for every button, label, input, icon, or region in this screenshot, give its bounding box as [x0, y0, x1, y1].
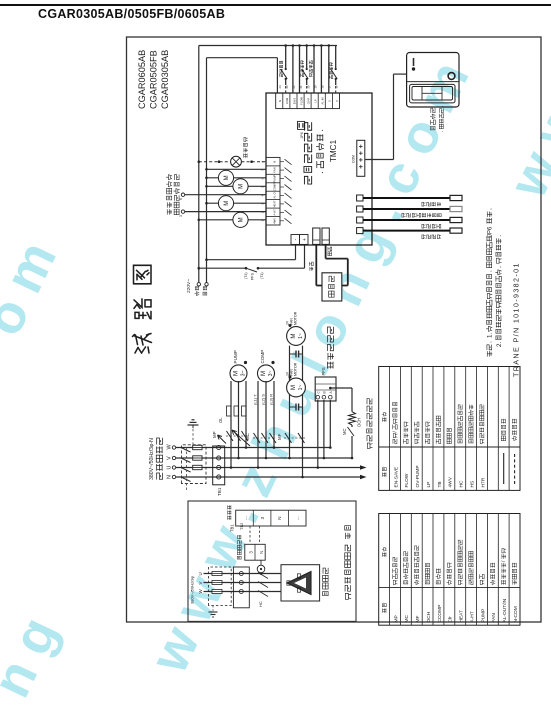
- svg-text:HC: HC: [258, 601, 263, 607]
- wire: [207, 168, 267, 170]
- wire: [476, 514, 478, 626]
- svg-text:17: 17: [328, 85, 332, 89]
- svg-text:HEAT: HEAT: [459, 610, 465, 623]
- wire: [176, 457, 352, 459]
- wire: [258, 591, 268, 597]
- wire: [176, 447, 331, 449]
- wire: [257, 381, 259, 468]
- svg-text:FLOW: FLOW: [299, 97, 303, 105]
- wire: [260, 572, 262, 575]
- svg-text:FLOW: FLOW: [404, 473, 410, 487]
- svg-text:1~: 1~: [298, 385, 304, 391]
- wire: [280, 169, 284, 171]
- wire: [351, 425, 353, 427]
- svg-text:CGAR0605AB: CGAR0605AB: [137, 50, 147, 109]
- output wire w7 + coil: [205, 176, 208, 179]
- wire: [302, 69, 309, 79]
- wire: [212, 591, 222, 593]
- wire: [258, 573, 268, 579]
- svg-text:3: 3: [261, 203, 265, 205]
- wire: [410, 367, 412, 491]
- main switch arrow: [218, 435, 227, 444]
- heater fuse dashed box: [209, 567, 232, 606]
- svg-text:MF: MF: [277, 433, 282, 440]
- svg-text:5: 5: [328, 100, 332, 102]
- wire: [276, 58, 278, 93]
- wire: [331, 69, 338, 79]
- wire: [363, 230, 450, 232]
- wire: [331, 93, 333, 109]
- label: [203, 292, 207, 295]
- svg-text:V: V: [167, 456, 173, 460]
- wire: [443, 367, 445, 491]
- wire: [306, 79, 308, 85]
- wire: [347, 259, 349, 286]
- wire: [304, 245, 306, 268]
- svg-text:4WV: 4WV: [273, 218, 277, 224]
- wire: [317, 93, 319, 109]
- wire: [234, 431, 241, 441]
- wire: [190, 421, 197, 423]
- label: [310, 74, 313, 77]
- wire: [204, 582, 282, 584]
- wire: [207, 259, 296, 261]
- wire: [207, 185, 267, 187]
- page title: [38, 7, 225, 21]
- output wire w2 + coil: [198, 218, 201, 221]
- svg-text:B: B: [322, 391, 326, 393]
- svg-text:OV-PUMP: OV-PUMP: [415, 465, 421, 487]
- svg-text:(L3) R: (L3) R: [269, 394, 274, 405]
- svg-text:...: ...: [243, 516, 248, 520]
- output wire w4 + coil: [205, 202, 208, 205]
- wire: [259, 526, 261, 544]
- wire: [329, 400, 331, 448]
- svg-text:PFS: PFS: [251, 272, 255, 280]
- wire: [181, 448, 191, 453]
- wire: [285, 46, 287, 70]
- wire: [394, 73, 407, 75]
- wire: [207, 177, 267, 179]
- label: [157, 473, 163, 479]
- label: [345, 594, 350, 600]
- wire: [432, 514, 434, 626]
- wire: [292, 46, 294, 94]
- wire: [306, 46, 308, 70]
- output wire w8: [205, 168, 208, 171]
- arrow to controller 2: [360, 465, 367, 469]
- svg-text:N: N: [278, 100, 282, 102]
- svg-text:3: 3: [179, 215, 183, 217]
- svg-text:MF: MF: [415, 616, 421, 623]
- heater fuse: [212, 590, 222, 594]
- wire: [280, 203, 284, 205]
- svg-text:V: V: [198, 582, 203, 585]
- wire: [295, 351, 297, 358]
- svg-text:/: /: [501, 560, 507, 562]
- wire: [258, 582, 268, 588]
- fan feed wires: [288, 457, 291, 460]
- main unit terminal strip: [236, 510, 306, 526]
- wire: [266, 190, 280, 192]
- transformer box: [322, 273, 342, 301]
- wire: [465, 367, 467, 491]
- wire: [365, 159, 394, 161]
- wire: [310, 93, 312, 109]
- pfs wires: [317, 466, 320, 469]
- label: [174, 209, 179, 215]
- svg-text:2: 2: [261, 211, 265, 213]
- wire: [296, 93, 298, 109]
- transformer plug CN-L: [313, 228, 320, 244]
- terminal block TB1: [213, 446, 225, 485]
- wire: [289, 346, 291, 458]
- svg-text:W: W: [167, 444, 173, 450]
- svg-text:M: M: [239, 184, 245, 189]
- incoming breaker dashed box: [182, 445, 207, 484]
- legend table: [379, 514, 520, 626]
- svg-text:4: 4: [261, 194, 265, 196]
- heater terminal strip TB3: [233, 567, 249, 608]
- heater fuse: [212, 581, 222, 585]
- wire: [421, 367, 423, 491]
- wire: [295, 245, 297, 260]
- label: [322, 172, 323, 173]
- wire: [212, 606, 214, 613]
- wire: [280, 186, 284, 188]
- wire: [266, 216, 280, 218]
- contactor coil: [233, 179, 248, 194]
- svg-text:MC: MC: [404, 615, 410, 623]
- wire: [193, 467, 202, 469]
- crankcase heater OCH resistor: [349, 412, 356, 425]
- label: [441, 130, 444, 133]
- wire: [232, 158, 240, 166]
- wire: [320, 46, 322, 94]
- wire: [476, 367, 478, 491]
- svg-text:OL: OL: [218, 417, 223, 423]
- wire: [330, 387, 352, 389]
- wire: [313, 239, 320, 241]
- svg-text:3~: 3~: [268, 370, 274, 376]
- wire: [193, 447, 202, 449]
- wire: [508, 367, 510, 491]
- svg-text:N: N: [277, 516, 282, 519]
- svg-text:TB1: TB1: [217, 487, 222, 496]
- wire: [204, 573, 282, 575]
- wire: [454, 514, 456, 626]
- wire: [454, 367, 456, 491]
- fuse: [193, 465, 202, 469]
- wire: [285, 168, 292, 174]
- wire: [253, 437, 276, 439]
- wire: [351, 388, 353, 412]
- svg-text:N-COM: N-COM: [513, 606, 519, 622]
- svg-text:380V~/50Hz/3φ: 380V~/50Hz/3φ: [190, 576, 195, 604]
- motor FAN1: [287, 378, 306, 397]
- svg-text:PUMP: PUMP: [273, 175, 277, 183]
- wire: [265, 381, 267, 458]
- wire: [199, 219, 266, 221]
- label: [237, 556, 241, 559]
- wire: [359, 152, 363, 154]
- wire: [508, 514, 510, 626]
- wire: [232, 158, 240, 166]
- wire: [315, 383, 336, 385]
- pump feed wires: [230, 466, 233, 469]
- wire: [379, 586, 520, 588]
- label: [301, 74, 304, 77]
- label: [328, 362, 333, 368]
- wire: [266, 182, 280, 184]
- wire: [486, 367, 488, 491]
- wire live to board via PFS contact: [198, 267, 201, 270]
- input terminal cells: [276, 93, 340, 109]
- motor FAN2: [287, 327, 306, 346]
- wire: [270, 510, 272, 526]
- alarm lamp: [231, 156, 242, 167]
- wire: [249, 526, 251, 544]
- svg-text:AL-OUT/IN: AL-OUT/IN: [502, 598, 508, 622]
- wire: [204, 591, 282, 593]
- control board TMC1: [266, 93, 372, 245]
- svg-text:M: M: [224, 201, 230, 206]
- motor COMP: [258, 365, 275, 382]
- wire: [514, 453, 516, 484]
- svg-text:OV-P: OV-P: [307, 98, 311, 105]
- wire: [226, 435, 249, 437]
- wire: [335, 79, 337, 85]
- wire: [421, 87, 423, 101]
- wire: [198, 46, 200, 283]
- svg-text:6: 6: [261, 177, 265, 179]
- wire: [285, 218, 292, 224]
- field wire 远传水泵相序联锁: [357, 206, 363, 212]
- wire: [188, 424, 199, 426]
- wire: [192, 425, 194, 428]
- svg-text:EN-SAVE: EN-SAVE: [393, 467, 399, 488]
- svg-text:Cfr: Cfr: [448, 616, 454, 623]
- field wire 远传报警: [357, 195, 363, 201]
- arrow to controller 1: [360, 475, 367, 479]
- wire: [212, 573, 222, 575]
- wire: [359, 166, 363, 168]
- wire: [270, 433, 277, 443]
- wire: [298, 404, 300, 411]
- svg-text:5: 5: [335, 100, 339, 102]
- label: [383, 418, 386, 422]
- wire: [280, 194, 284, 196]
- svg-text:AL-O: AL-O: [273, 192, 277, 198]
- wire: [287, 510, 289, 526]
- wire: [299, 406, 303, 408]
- svg-text:1.: 1.: [487, 333, 494, 338]
- 220V input terminals: [291, 235, 300, 245]
- svg-text:TB1: TB1: [230, 524, 235, 532]
- label: [328, 252, 332, 256]
- wire: [207, 202, 267, 204]
- comm connector: [357, 140, 365, 176]
- wire: [281, 69, 288, 79]
- svg-text:4WV: 4WV: [448, 476, 454, 487]
- wire: [289, 93, 291, 109]
- wire: [322, 239, 329, 241]
- svg-text:N: N: [167, 475, 173, 479]
- wire: [284, 437, 305, 439]
- wire: [422, 92, 442, 94]
- live bus 220V: [197, 283, 200, 286]
- wire: [192, 428, 194, 445]
- svg-text:1: 1: [261, 220, 265, 222]
- wire: [252, 510, 254, 526]
- wire: [176, 467, 360, 469]
- svg-text:U: U: [198, 572, 203, 575]
- wire: [266, 165, 280, 167]
- contactor coil: [218, 196, 233, 211]
- heater element box: [281, 565, 320, 601]
- label: [383, 609, 386, 613]
- svg-text:+: +: [302, 238, 308, 241]
- panel lcd: [410, 84, 455, 103]
- svg-text:PFS: PFS: [321, 367, 326, 375]
- svg-text:TB2: TB2: [239, 522, 244, 530]
- svg-text:5: 5: [261, 186, 265, 188]
- svg-text:AL-IN: AL-IN: [321, 98, 325, 105]
- svg-text:OCH: OCH: [357, 418, 362, 427]
- svg-text:M: M: [224, 175, 230, 180]
- svg-text:M: M: [233, 371, 240, 376]
- transformer plug CN-N: [322, 228, 329, 244]
- svg-text:A-HT: A-HT: [470, 611, 476, 622]
- top rule: [0, 4, 551, 6]
- wire: [313, 46, 315, 94]
- wire: [176, 476, 360, 478]
- wire: [323, 400, 325, 458]
- comp feed wires: [257, 466, 260, 469]
- wire: [298, 123, 300, 128]
- wire: [325, 244, 327, 258]
- wire: [181, 468, 191, 473]
- wire: [207, 57, 278, 59]
- svg-text:HS: HS: [470, 481, 476, 488]
- wire: [185, 194, 266, 196]
- wire: [186, 446, 188, 490]
- wire: [285, 210, 292, 216]
- wire: [280, 161, 284, 163]
- wire: [363, 219, 450, 221]
- wire: [465, 514, 467, 626]
- wire: [273, 381, 275, 448]
- wire: [410, 514, 412, 626]
- wire: [258, 267, 305, 269]
- fuse: [193, 456, 202, 460]
- wire: [254, 544, 256, 560]
- wire: [209, 611, 218, 613]
- wire: [503, 453, 505, 484]
- svg-text:EN-S: EN-S: [292, 98, 296, 105]
- wire: [351, 436, 353, 458]
- wire: [360, 151, 362, 155]
- svg-text:(T1): (T1): [260, 272, 264, 279]
- wire: [238, 381, 240, 458]
- svg-text:MOTOR: MOTOR: [294, 362, 298, 376]
- svg-text:A-HT: A-HT: [273, 209, 277, 216]
- svg-text:1~: 1~: [298, 333, 304, 339]
- svg-text:HC: HC: [459, 480, 465, 487]
- svg-text:6: 6: [179, 198, 183, 200]
- wire: [324, 93, 326, 109]
- wire: [421, 514, 423, 626]
- svg-text:MOTOR: MOTOR: [294, 311, 298, 325]
- wire: [298, 351, 300, 358]
- contactor coil: [218, 170, 233, 185]
- wire: [359, 145, 363, 147]
- svg-text:CGAR0505FB: CGAR0505FB: [149, 50, 159, 109]
- wire: [399, 367, 401, 491]
- label: [228, 516, 231, 520]
- wire: [285, 79, 287, 85]
- wire: [285, 176, 292, 182]
- wire: [290, 353, 297, 355]
- wire: [315, 389, 336, 391]
- wire: [199, 45, 337, 47]
- wire: [181, 458, 191, 463]
- svg-text:...: ...: [295, 516, 300, 520]
- wire: [335, 85, 337, 93]
- svg-text:FAN: FAN: [491, 613, 497, 623]
- label: [329, 291, 334, 297]
- svg-text:M: M: [290, 333, 297, 338]
- wire: [212, 582, 222, 584]
- wire: [363, 208, 450, 210]
- wire: [379, 446, 520, 448]
- svg-text:OCH: OCH: [426, 611, 432, 622]
- wire: [230, 381, 232, 468]
- wire: [399, 514, 401, 626]
- label: [244, 154, 247, 158]
- output wire w3 (aux heat 3): [181, 210, 184, 213]
- svg-text:LP: LP: [426, 482, 432, 488]
- svg-text:N: N: [273, 161, 277, 163]
- wire: [443, 514, 445, 626]
- svg-text:/: /: [393, 431, 399, 433]
- wire: [211, 614, 216, 616]
- label: [310, 267, 313, 271]
- svg-text:TMC1: TMC1: [329, 139, 338, 162]
- svg-text:CCOMP: CCOMP: [437, 605, 443, 623]
- wire: [254, 433, 261, 443]
- wire: [326, 258, 348, 260]
- label: [167, 209, 172, 214]
- wire: [389, 367, 391, 491]
- svg-text:PUMP: PUMP: [480, 609, 486, 623]
- wire: [303, 93, 305, 109]
- wire: [407, 81, 459, 83]
- heater fuse: [212, 572, 222, 576]
- panel knob: [448, 73, 455, 80]
- notes: [487, 351, 492, 356]
- wire: [280, 178, 284, 180]
- svg-text:FAN: FAN: [273, 167, 277, 172]
- wire: [185, 211, 266, 213]
- svg-text:W: W: [198, 589, 203, 594]
- svg-text:(L1) T: (L1) T: [253, 394, 258, 405]
- svg-text:3~: 3~: [241, 370, 247, 376]
- svg-text:CGAR0305AB: CGAR0305AB: [160, 50, 170, 109]
- svg-text:3: 3: [260, 516, 265, 519]
- svg-text:PUMP: PUMP: [233, 350, 238, 363]
- wire: [302, 346, 304, 477]
